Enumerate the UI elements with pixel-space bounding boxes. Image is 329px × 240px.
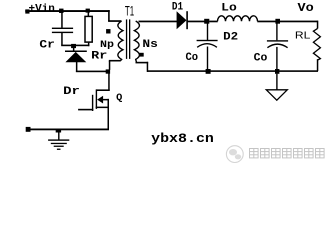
node top junction 2 bbox=[275, 19, 280, 24]
wire source stub bbox=[96, 107, 109, 109]
node bottom-left terminal bbox=[26, 127, 31, 132]
wire clamp horizontal bbox=[61, 45, 89, 47]
node +Vin terminal square bbox=[25, 9, 29, 13]
winding Np scallops bbox=[118, 21, 123, 61]
wire secondary top D bbox=[257, 21, 276, 23]
wire gate lead bbox=[78, 109, 93, 111]
wire secondary top E bbox=[280, 21, 318, 23]
wire Co1 bottom lead bbox=[207, 47, 208, 70]
svg-text:D1: D1 bbox=[172, 1, 184, 13]
wire secondary top B bbox=[187, 21, 205, 23]
wire RL bottom vertical bbox=[317, 59, 319, 71]
svg-text:Vo: Vo bbox=[298, 1, 314, 15]
winding Ns scallops bbox=[134, 21, 139, 62]
core line right bbox=[129, 19, 130, 59]
wire drain horizontal bbox=[96, 89, 109, 91]
svg-text:ybx8.cn: ybx8.cn bbox=[151, 131, 214, 146]
node Np phase dot bbox=[106, 29, 110, 33]
wire secondary bottom horizontal bbox=[136, 62, 149, 64]
resistor RL zigzag bbox=[313, 28, 320, 60]
wire drain vertical bbox=[108, 74, 110, 91]
svg-text:+Vin: +Vin bbox=[29, 3, 55, 15]
wire bottom-left rail bbox=[28, 129, 109, 131]
wire Cr top lead bbox=[61, 12, 63, 28]
ground triangle symbol bbox=[266, 90, 287, 100]
wire primary bottom bbox=[109, 60, 121, 62]
wire channel plate bbox=[96, 89, 97, 109]
svg-text:D2: D2 bbox=[223, 31, 238, 43]
ground earth symbol bbox=[48, 130, 69, 150]
svg-text:Q: Q bbox=[116, 93, 122, 104]
wire gate plate bbox=[92, 95, 93, 111]
node drain junction bbox=[106, 69, 110, 73]
watermark logo circle bbox=[226, 146, 243, 163]
wire Co2 bottom lead bbox=[276, 47, 277, 70]
wire Co2 top lead bbox=[276, 24, 277, 41]
svg-text:Cr: Cr bbox=[39, 40, 55, 52]
node junction Cr-top bbox=[59, 9, 63, 13]
svg-text:Rr: Rr bbox=[91, 51, 107, 63]
wire secondary top A bbox=[139, 21, 178, 23]
node clamp junction bbox=[71, 44, 76, 48]
svg-text:Lo: Lo bbox=[221, 3, 237, 15]
wire source lead bbox=[108, 107, 110, 130]
svg-text:Dr: Dr bbox=[63, 86, 80, 98]
wire bottom rail right bbox=[147, 70, 318, 72]
resistor Rr bbox=[85, 16, 92, 42]
wire top-left rail bbox=[25, 10, 109, 12]
wire anode horizontal bbox=[76, 71, 107, 73]
wire step vertical bbox=[108, 10, 110, 21]
svg-text:RL: RL bbox=[295, 31, 311, 42]
inductor Lo bbox=[218, 16, 258, 22]
svg-text:Np: Np bbox=[100, 40, 114, 51]
wire Rr bottom lead bbox=[88, 43, 90, 47]
capacitor Co1 bbox=[197, 40, 218, 48]
wire RL top vertical bbox=[317, 21, 319, 29]
diode clamp (triangle) bbox=[65, 52, 86, 62]
wire Co1 top lead bbox=[207, 24, 208, 41]
node ground nub bbox=[56, 130, 61, 133]
arrow body diode bbox=[97, 96, 103, 104]
node Ns phase dot bbox=[140, 53, 144, 57]
wire junction-to-diode lead bbox=[73, 48, 75, 51]
wire Cr bottom lead bbox=[61, 33, 63, 46]
node top junction 1 bbox=[204, 19, 209, 24]
wire body stub bbox=[102, 99, 109, 101]
node bottom junction 1 bbox=[206, 69, 211, 74]
watermark text blocks bbox=[250, 149, 325, 158]
wire body-source vertical bbox=[108, 99, 110, 108]
wire anode lead vertical bbox=[76, 62, 78, 72]
node junction Rr-top bbox=[86, 9, 90, 13]
svg-text:Ns: Ns bbox=[142, 39, 158, 51]
wire secondary bottom vertical bbox=[147, 62, 149, 72]
capacitor Co2 bbox=[267, 40, 288, 48]
svg-text:Co: Co bbox=[186, 52, 199, 64]
core line left bbox=[126, 19, 127, 59]
node bottom junction 2 bbox=[275, 69, 279, 74]
diode D1 bbox=[177, 11, 188, 29]
wire primary-bottom vertical bbox=[109, 61, 111, 70]
svg-text:T1: T1 bbox=[125, 2, 134, 18]
svg-text:Co: Co bbox=[254, 52, 268, 64]
capacitor Cr bbox=[52, 28, 73, 34]
diode clamp (cathode bar) bbox=[65, 51, 87, 53]
wire ground2 stub bbox=[276, 74, 277, 90]
wire primary top bbox=[108, 20, 121, 22]
wire Rr top lead bbox=[88, 13, 90, 17]
wire secondary top C bbox=[209, 21, 218, 23]
